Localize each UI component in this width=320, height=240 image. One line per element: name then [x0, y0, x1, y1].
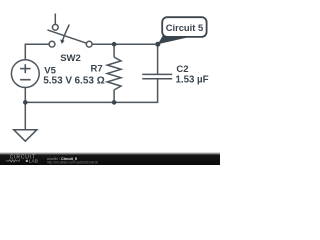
- svg-text:R7: R7: [91, 64, 103, 75]
- svg-text:SW2: SW2: [60, 53, 81, 64]
- svg-text:5.53 V: 5.53 V: [43, 75, 72, 86]
- svg-text:1.53 µF: 1.53 µF: [176, 75, 209, 86]
- svg-text:http://circuitlab.com/c/pd8932: http://circuitlab.com/c/pd89322uik28: [47, 160, 98, 164]
- svg-text:Circuit 5: Circuit 5: [166, 22, 204, 33]
- svg-text:LAB: LAB: [29, 159, 39, 164]
- svg-text:6.53 Ω: 6.53 Ω: [75, 75, 105, 86]
- svg-text:C2: C2: [176, 64, 188, 75]
